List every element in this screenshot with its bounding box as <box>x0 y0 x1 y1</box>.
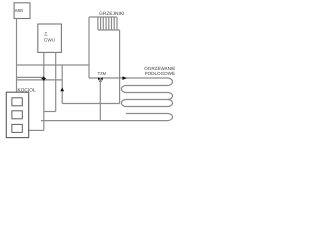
junction star at CWU supply <box>41 76 46 81</box>
pipe radiator supply drop <box>88 17 90 78</box>
floor heating serpentine coil <box>121 78 172 121</box>
wire supply L1 horizontal <box>17 64 90 66</box>
radiator fins <box>98 17 117 30</box>
boiler inner square 2 <box>12 111 22 119</box>
wire ABB-to-boiler vertical <box>16 19 18 93</box>
svg-text:Z.: Z. <box>44 32 48 37</box>
flow arrow right on supply <box>122 76 126 80</box>
pipe TZM down to bus <box>99 78 101 121</box>
wire return riser <box>61 65 63 104</box>
boiler KOCIOL <box>6 92 28 137</box>
svg-text:GRZEJNIKI: GRZEJNIKI <box>99 11 124 17</box>
valve TZM three-way <box>98 77 103 82</box>
radiator bottom line <box>98 29 120 31</box>
controller box ABB <box>14 3 30 19</box>
svg-text:CWU: CWU <box>44 38 55 43</box>
boiler inner square 3 <box>12 124 22 132</box>
svg-text:ABB: ABB <box>15 8 23 13</box>
svg-text:PODŁOGOWE: PODŁOGOWE <box>145 71 175 76</box>
pipe CWU right <box>55 52 57 111</box>
flow arrow up on return riser <box>60 87 64 91</box>
boiler inner square 1 <box>12 98 22 106</box>
wire return bus horizontal <box>41 120 168 122</box>
svg-text:KOCIOŁ: KOCIOŁ <box>17 88 36 93</box>
wire boiler lower horizontal <box>17 79 63 81</box>
pipe boiler-to-bus horizontal <box>29 129 44 131</box>
wire radiator return horizontal <box>62 103 119 105</box>
wire boiler upper horizontal <box>17 76 44 78</box>
pipe CWU left <box>43 52 45 130</box>
svg-text:TZM: TZM <box>98 71 107 76</box>
radiator GRZEJNIKI top line <box>89 16 117 18</box>
pipe CWU crossover horizontal <box>44 111 56 113</box>
tank Z.CWU <box>38 24 62 52</box>
wire TZM supply horizontal <box>89 77 168 79</box>
pipe radiator return drop <box>119 30 121 104</box>
